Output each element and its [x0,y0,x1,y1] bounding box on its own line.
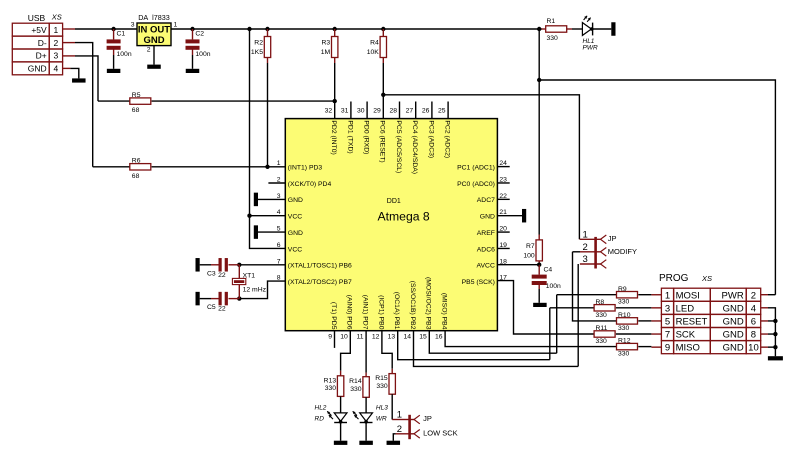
svg-text:PC0 (ADC0): PC0 (ADC0) [457,181,495,188]
svg-text:R8: R8 [596,299,605,306]
svg-text:8: 8 [751,330,756,341]
svg-text:GND: GND [723,316,744,327]
svg-text:6: 6 [277,242,281,249]
svg-text:15: 15 [419,334,427,341]
svg-text:PD2 (INT0): PD2 (INT0) [330,120,337,154]
svg-text:R5: R5 [132,92,141,99]
svg-text:22: 22 [218,306,226,313]
svg-text:PC3 (ADC3): PC3 (ADC3) [427,120,434,158]
svg-text:6: 6 [751,316,756,327]
svg-text:32: 32 [325,108,333,115]
svg-text:28: 28 [389,108,397,115]
svg-text:PC5 (ADC5/SCL): PC5 (ADC5/SCL) [395,120,402,173]
svg-text:XS: XS [51,12,62,21]
svg-text:(XCK/T0) PD4: (XCK/T0) PD4 [288,181,332,188]
svg-text:GND: GND [288,197,303,204]
svg-text:1: 1 [665,290,670,301]
svg-text:ADC6: ADC6 [477,246,495,253]
svg-text:2: 2 [751,290,756,301]
svg-text:22: 22 [218,272,226,279]
svg-text:31: 31 [341,108,349,115]
svg-text:1: 1 [397,410,402,421]
svg-text:13: 13 [388,334,396,341]
svg-text:AVCC: AVCC [477,263,495,270]
svg-text:1: 1 [277,160,281,167]
svg-text:330: 330 [618,299,630,306]
svg-text:30: 30 [357,108,365,115]
svg-text:XT1: XT1 [243,273,256,280]
svg-text:GND: GND [723,303,744,314]
svg-text:PD0 (RXD): PD0 (RXD) [363,120,370,154]
svg-text:16: 16 [435,334,443,341]
svg-text:9: 9 [665,343,670,354]
svg-text:11: 11 [357,334,364,341]
svg-text:VCC: VCC [288,246,302,253]
svg-text:MODIFY: MODIFY [608,247,637,256]
svg-text:R7: R7 [526,243,535,250]
svg-text:GND: GND [288,230,303,237]
svg-text:PWR: PWR [722,290,744,301]
svg-text:(ICP1) PB0: (ICP1) PB0 [377,295,384,330]
svg-text:DD1: DD1 [387,198,401,205]
svg-text:GND: GND [28,64,47,74]
svg-text:3: 3 [583,254,588,265]
svg-text:R3: R3 [321,40,330,47]
svg-text:68: 68 [132,173,140,180]
svg-text:PC4 (ADC4/SDA): PC4 (ADC4/SDA) [411,120,418,174]
svg-text:330: 330 [596,312,608,319]
svg-text:100: 100 [523,252,535,259]
svg-text:1: 1 [583,229,588,240]
svg-text:12: 12 [372,334,380,341]
svg-text:1K5: 1K5 [251,49,263,56]
svg-text:(MISO) PB4: (MISO) PB4 [441,293,448,330]
svg-text:R4: R4 [370,40,379,47]
svg-text:330: 330 [618,351,630,358]
svg-text:(SS/OC1B) PB2: (SS/OC1B) PB2 [409,281,416,330]
svg-text:+5V: +5V [31,25,47,35]
svg-text:68: 68 [132,107,140,114]
svg-text:5: 5 [665,316,670,327]
svg-text:(AIN1) PD7: (AIN1) PD7 [362,295,369,330]
svg-text:2: 2 [54,38,59,48]
svg-text:R6: R6 [132,158,141,165]
svg-text:RESET: RESET [676,316,708,327]
svg-text:PWR: PWR [583,44,598,51]
svg-text:9: 9 [328,334,332,341]
svg-text:10K: 10K [367,49,380,56]
svg-text:C1: C1 [117,31,126,38]
svg-text:LOW SCK: LOW SCK [423,429,458,438]
svg-text:(XTAL2/TOSC2) PB7: (XTAL2/TOSC2) PB7 [288,279,352,286]
svg-text:4: 4 [54,64,59,74]
svg-text:GND: GND [480,214,495,221]
svg-text:GND: GND [723,330,744,341]
svg-text:R11: R11 [596,325,608,332]
svg-text:PC2 (ADC2): PC2 (ADC2) [444,120,451,158]
svg-text:XS: XS [701,274,712,283]
svg-text:100n: 100n [546,283,561,290]
svg-text:1: 1 [174,22,178,29]
svg-text:JP: JP [423,414,432,423]
svg-text:SCK: SCK [676,330,696,341]
svg-text:R14: R14 [349,378,362,385]
svg-text:(XTAL1/TOSC1) PB6: (XTAL1/TOSC1) PB6 [288,263,352,270]
svg-text:R2: R2 [254,40,263,47]
svg-text:D+: D+ [36,51,47,61]
svg-text:WR: WR [376,416,387,423]
svg-text:330: 330 [350,386,362,393]
svg-text:R1: R1 [547,18,556,25]
svg-text:ADC7: ADC7 [477,197,495,204]
svg-text:Atmega 8: Atmega 8 [378,210,430,224]
svg-text:330: 330 [325,385,337,392]
svg-text:14: 14 [403,334,411,341]
svg-text:PD1 (TXD): PD1 (TXD) [346,120,353,153]
svg-text:(T1) PD5: (T1) PD5 [330,302,337,330]
svg-text:2: 2 [583,242,588,253]
svg-text:10: 10 [340,334,348,341]
svg-text:3: 3 [665,303,670,314]
svg-text:HL2: HL2 [315,405,327,412]
svg-text:100n: 100n [117,51,132,58]
svg-text:C5: C5 [207,304,216,311]
svg-text:R12: R12 [618,338,631,345]
svg-text:100n: 100n [195,51,210,58]
svg-text:(INT1) PD3: (INT1) PD3 [288,164,323,171]
svg-text:GND: GND [143,35,164,46]
svg-text:USB: USB [28,13,46,23]
svg-text:330: 330 [376,383,388,390]
svg-text:1: 1 [54,25,59,35]
svg-text:2: 2 [397,424,402,435]
svg-text:VCC: VCC [288,214,302,221]
svg-text:PC1 (ADC1): PC1 (ADC1) [457,164,495,171]
svg-text:330: 330 [596,338,608,345]
svg-text:330: 330 [618,325,630,332]
svg-text:7: 7 [665,330,670,341]
svg-text:LED: LED [676,303,695,314]
svg-text:R10: R10 [618,312,631,319]
svg-text:C2: C2 [195,31,204,38]
svg-text:PC6 (RESET): PC6 (RESET) [379,120,386,162]
svg-text:MOSI: MOSI [676,290,700,301]
svg-text:29: 29 [373,108,381,115]
svg-text:27: 27 [406,108,414,115]
svg-text:DA l7833: DA l7833 [138,13,170,22]
svg-text:HL3: HL3 [376,405,388,412]
svg-text:(MOSI/OC2) PB3: (MOSI/OC2) PB3 [425,277,432,330]
svg-text:AREF: AREF [477,230,495,237]
svg-text:10: 10 [748,343,759,354]
svg-text:R13: R13 [324,377,337,384]
svg-text:IN OUT: IN OUT [138,24,170,35]
svg-text:D-: D- [38,38,47,48]
svg-text:C3: C3 [207,270,216,277]
svg-text:JP: JP [608,234,617,243]
svg-text:PB5 (SCK): PB5 (SCK) [462,279,495,286]
svg-text:(OC1A) PB1: (OC1A) PB1 [393,292,400,330]
svg-text:C4: C4 [544,267,553,274]
svg-text:PROG: PROG [659,273,689,284]
svg-text:RD: RD [315,416,325,423]
svg-text:1M: 1M [321,49,331,56]
svg-text:(AIN0) PD6: (AIN0) PD6 [346,295,353,330]
svg-text:26: 26 [422,108,430,115]
svg-text:R15: R15 [375,375,388,382]
svg-text:GND: GND [723,343,744,354]
svg-text:12 mHz: 12 mHz [243,287,267,294]
svg-text:R9: R9 [618,286,627,293]
svg-text:4: 4 [277,209,281,216]
svg-text:3: 3 [54,51,59,61]
svg-text:2: 2 [147,47,151,54]
svg-text:4: 4 [751,303,756,314]
svg-text:MISO: MISO [676,343,700,354]
svg-text:25: 25 [438,108,446,115]
svg-text:3: 3 [131,22,135,29]
svg-text:330: 330 [547,35,559,42]
